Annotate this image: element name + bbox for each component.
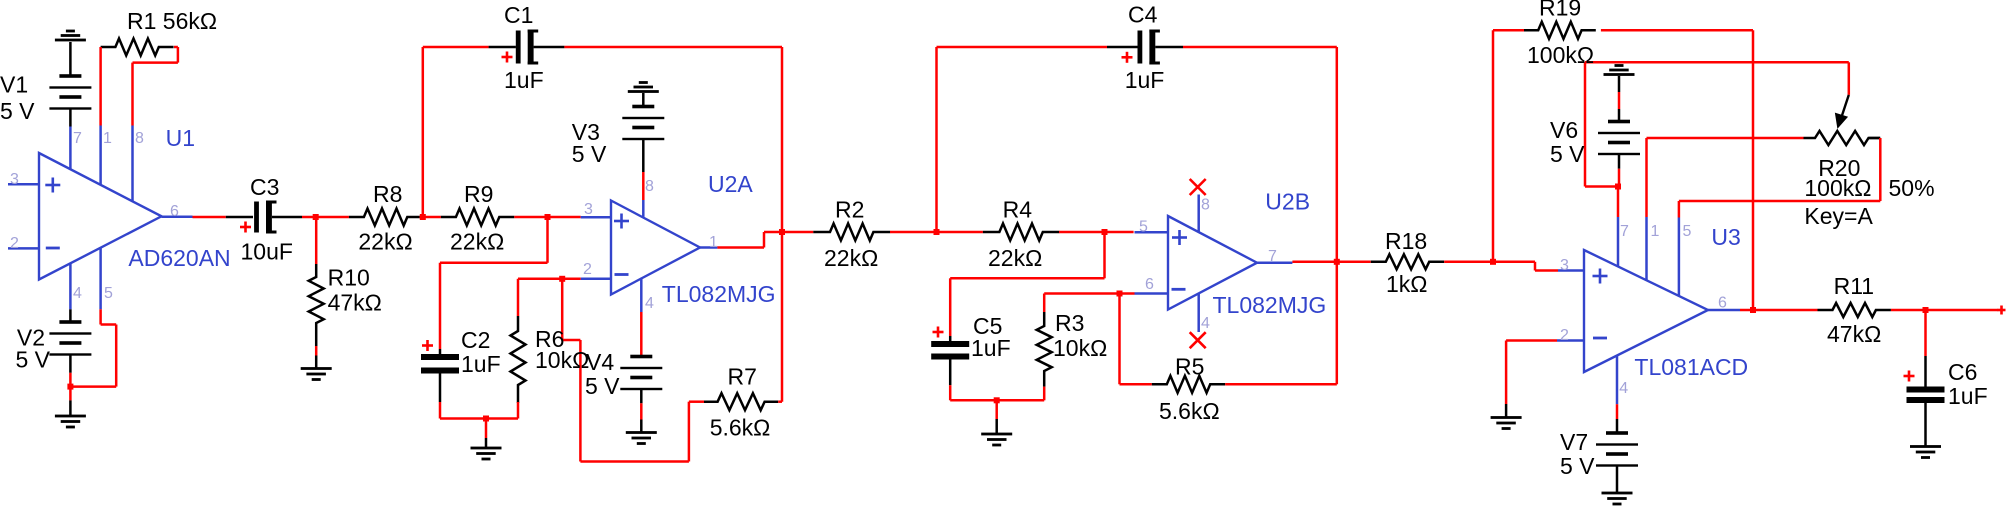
svg-text:TL082MJG: TL082MJG — [662, 281, 776, 307]
svg-text:V6: V6 — [1550, 117, 1578, 143]
svg-text:1: 1 — [103, 130, 112, 147]
svg-text:C6: C6 — [1948, 359, 1977, 385]
svg-text:U1: U1 — [166, 125, 195, 151]
svg-text:R10: R10 — [328, 265, 370, 291]
svg-text:5.6kΩ: 5.6kΩ — [710, 415, 771, 441]
svg-text:R7: R7 — [728, 364, 757, 390]
svg-text:100kΩ: 100kΩ — [1804, 175, 1871, 201]
svg-text:1: 1 — [709, 234, 718, 251]
svg-text:22kΩ: 22kΩ — [358, 228, 412, 254]
svg-text:47kΩ: 47kΩ — [328, 290, 382, 316]
svg-text:R9: R9 — [464, 181, 493, 207]
svg-text:5 V: 5 V — [585, 373, 620, 399]
svg-text:1uF: 1uF — [1948, 383, 1988, 409]
svg-text:22kΩ: 22kΩ — [450, 228, 504, 254]
svg-text:V7: V7 — [1560, 429, 1588, 455]
svg-text:6: 6 — [1718, 295, 1727, 312]
svg-text:7: 7 — [73, 130, 82, 147]
svg-text:1uF: 1uF — [504, 67, 544, 93]
svg-text:2: 2 — [1560, 327, 1569, 344]
svg-text:1kΩ: 1kΩ — [1386, 271, 1428, 297]
svg-text:10kΩ: 10kΩ — [535, 347, 589, 373]
svg-text:TL082MJG: TL082MJG — [1213, 292, 1327, 318]
svg-text:R2: R2 — [835, 197, 864, 223]
svg-text:1uF: 1uF — [971, 335, 1011, 361]
svg-text:3: 3 — [584, 201, 593, 218]
svg-text:5 V: 5 V — [572, 141, 607, 167]
svg-text:R4: R4 — [1003, 197, 1033, 223]
svg-text:V4: V4 — [586, 349, 614, 375]
svg-text:R18: R18 — [1385, 228, 1427, 254]
svg-text:C4: C4 — [1128, 1, 1158, 27]
svg-text:R5: R5 — [1175, 354, 1204, 380]
svg-text:5 V: 5 V — [1560, 453, 1595, 479]
svg-text:3: 3 — [1560, 257, 1569, 274]
svg-text:R1 56kΩ: R1 56kΩ — [127, 8, 217, 34]
svg-text:U3: U3 — [1711, 224, 1740, 250]
svg-text:C1: C1 — [504, 2, 533, 28]
svg-text:U2A: U2A — [708, 171, 753, 197]
svg-text:10kΩ: 10kΩ — [1053, 335, 1107, 361]
svg-text:5: 5 — [104, 285, 113, 302]
svg-text:22kΩ: 22kΩ — [824, 245, 878, 271]
svg-text:V1: V1 — [0, 72, 28, 98]
svg-text:R3: R3 — [1055, 310, 1084, 336]
svg-text:5 V: 5 V — [16, 346, 51, 372]
svg-text:2: 2 — [10, 235, 19, 252]
svg-text:10uF: 10uF — [241, 239, 293, 265]
svg-text:8: 8 — [645, 178, 654, 195]
svg-text:R11: R11 — [1834, 273, 1875, 299]
svg-text:50%: 50% — [1889, 175, 1935, 201]
svg-text:4: 4 — [1619, 380, 1628, 397]
svg-text:Key=A: Key=A — [1804, 203, 1873, 229]
svg-text:8: 8 — [1201, 197, 1210, 214]
svg-text:C3: C3 — [250, 174, 279, 200]
svg-text:5 V: 5 V — [1550, 141, 1585, 167]
svg-text:4: 4 — [1201, 315, 1210, 332]
svg-text:TL081ACD: TL081ACD — [1634, 354, 1748, 380]
svg-text:R8: R8 — [373, 181, 402, 207]
svg-text:1uF: 1uF — [461, 351, 501, 377]
svg-text:47kΩ: 47kΩ — [1827, 321, 1881, 347]
svg-text:1uF: 1uF — [1125, 67, 1165, 93]
svg-text:5.6kΩ: 5.6kΩ — [1159, 398, 1220, 424]
svg-text:8: 8 — [135, 130, 144, 147]
svg-text:6: 6 — [170, 203, 179, 220]
svg-text:5: 5 — [1139, 219, 1148, 236]
svg-text:5: 5 — [1683, 223, 1692, 240]
svg-text:2: 2 — [583, 261, 592, 278]
svg-text:22kΩ: 22kΩ — [988, 245, 1042, 271]
svg-text:AD620AN: AD620AN — [128, 245, 230, 271]
svg-text:3: 3 — [10, 171, 19, 188]
svg-text:1: 1 — [1651, 223, 1660, 240]
svg-text:7: 7 — [1620, 223, 1629, 240]
svg-text:4: 4 — [73, 285, 82, 302]
svg-text:5 V: 5 V — [0, 98, 35, 124]
svg-text:U2B: U2B — [1265, 189, 1310, 215]
svg-text:6: 6 — [1145, 276, 1154, 293]
svg-text:100kΩ: 100kΩ — [1527, 42, 1594, 68]
svg-text:7: 7 — [1268, 248, 1277, 265]
svg-text:R19: R19 — [1539, 0, 1581, 21]
svg-text:C2: C2 — [461, 327, 490, 353]
svg-text:4: 4 — [645, 295, 654, 312]
